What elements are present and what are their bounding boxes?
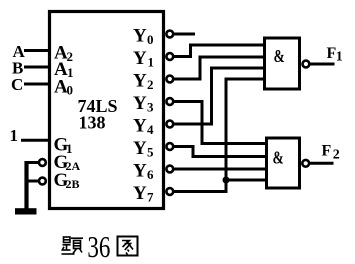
svg-text:6: 6 [147,167,154,182]
svg-text:138: 138 [79,113,106,133]
svg-text:F: F [322,143,332,160]
svg-text:Y: Y [133,71,147,92]
svg-text:5: 5 [147,145,154,160]
svg-text:0: 0 [67,83,74,98]
svg-text:Y: Y [133,26,147,47]
svg-text:Y: Y [133,116,147,137]
svg-text:4: 4 [147,122,154,137]
svg-text:&: & [273,149,284,168]
svg-text:Y: Y [133,48,147,69]
svg-text:0: 0 [147,32,154,47]
svg-text:C: C [11,75,23,94]
svg-text:1: 1 [67,65,74,80]
svg-text:Y: Y [133,161,147,182]
svg-text:1: 1 [336,50,343,65]
svg-text:Y: Y [133,183,147,204]
svg-text:1: 1 [148,55,155,70]
svg-text:1: 1 [10,126,19,145]
svg-text:Y: Y [133,93,147,114]
svg-text:Y: Y [133,138,147,159]
svg-text:36: 36 [87,229,110,264]
svg-text:2: 2 [147,77,154,92]
svg-text:&: & [274,47,285,66]
svg-text:2: 2 [333,148,340,163]
svg-text:2B: 2B [66,177,80,191]
svg-text:7: 7 [147,190,154,205]
svg-text:3: 3 [147,100,154,115]
